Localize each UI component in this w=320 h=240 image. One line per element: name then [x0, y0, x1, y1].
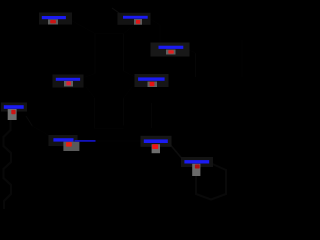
bond: ring1 top edge — [95, 33, 124, 35]
bond: far right vertical — [241, 40, 243, 77]
amide 4 NH label — [56, 78, 80, 81]
amide 9 NH label — [184, 160, 209, 163]
amide 4 O atom — [66, 81, 71, 85]
ring below label9 — [196, 163, 226, 200]
amide 8 label halo — [141, 136, 172, 147]
bond: ring1 to label2 — [124, 23, 138, 34]
amide 7 O halo — [63, 142, 79, 151]
bond: ring1 left vertical — [94, 34, 96, 74]
amide 6 label halo — [1, 103, 27, 112]
bond: label1 to ring1 top-left — [66, 18, 95, 34]
bond: label3 down vertical — [195, 53, 197, 77]
bond: ring2 bottom edge — [95, 128, 124, 130]
amide 7 label halo — [49, 135, 78, 146]
bond: ring2 top-left diagonal — [86, 87, 95, 98]
amide 1 O halo — [48, 19, 58, 24]
amide 9 label halo — [181, 157, 213, 167]
amide 7 O atom — [66, 142, 72, 147]
amide 2 label halo — [118, 13, 151, 25]
amide 1 NH label — [42, 16, 66, 19]
amide 2 O halo — [134, 19, 142, 25]
bond: below label5 vertical — [151, 103, 153, 128]
amide 3 O atom — [168, 50, 174, 53]
amide 3 label halo — [151, 43, 190, 57]
bond: label2 upper-left stub — [112, 8, 122, 15]
amide 5 NH label — [138, 77, 165, 80]
amide 5 O atom — [150, 82, 155, 87]
amide 9 O atom — [195, 164, 200, 168]
bond: ring1 right vertical — [123, 34, 125, 72]
bond: label6 down-right diagonal — [26, 116, 33, 127]
bond: left zigzag chain — [4, 120, 12, 209]
amide 5 label halo — [135, 74, 169, 87]
amide 7 NH label — [53, 138, 73, 141]
amide 6 NH label — [4, 105, 24, 109]
amide 1 O atom — [50, 20, 56, 23]
bond: ring1 bottom-right to label5 — [124, 71, 139, 79]
amide 6 O halo — [8, 109, 17, 120]
bond: ring2 top-right diagonal — [124, 87, 133, 98]
amide 7 N-N bond (blue) — [75, 140, 96, 142]
amide 8 O atom — [152, 144, 158, 149]
amide 5 O halo — [148, 82, 158, 88]
amide 3 NH label — [159, 46, 184, 49]
bond: ring2 left vertical — [94, 98, 96, 129]
bond: label3 to vertical stub — [183, 48, 196, 54]
bond: label7 to label8 horizontal — [95, 140, 144, 142]
amide 8 NH label — [144, 139, 168, 143]
bond: label8 to label9 diagonal — [168, 142, 184, 161]
amide 4 label halo — [53, 75, 84, 88]
amide 4 O halo — [64, 81, 73, 87]
amide 8 O halo — [152, 144, 160, 153]
bond: ring2 right vertical — [123, 98, 125, 126]
amide 2 NH label — [123, 16, 148, 19]
amide 1 label halo — [39, 13, 72, 25]
amide 3 O halo — [166, 50, 176, 55]
bond: label2 to label3 link — [148, 18, 160, 43]
amide 6 O atom — [11, 110, 15, 114]
amide 2 O atom — [136, 20, 140, 24]
bond: chain to label7 — [32, 126, 53, 139]
bond: ring1 bottom-left to label4 — [81, 74, 95, 79]
amide 9 O halo — [192, 164, 200, 176]
